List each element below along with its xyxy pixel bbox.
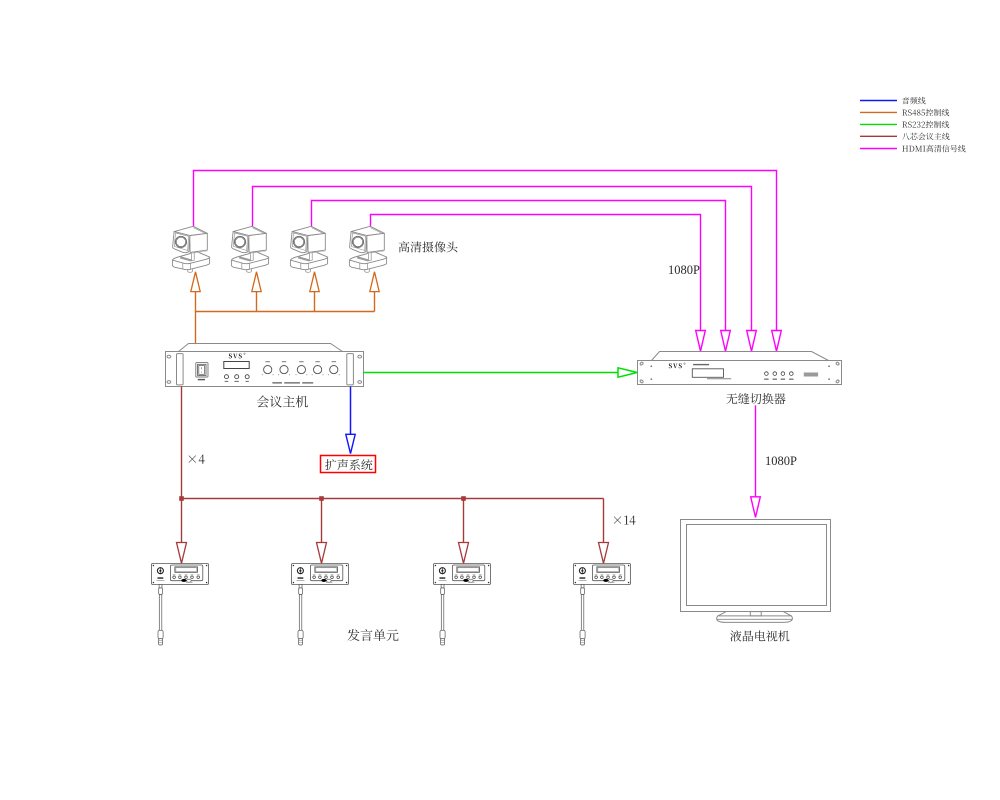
PA system box 扩声系统 (321, 456, 376, 473)
LCD TV 液晶电视机 (681, 520, 831, 623)
microphone unit MIC4 发言单元 (574, 564, 631, 646)
seamless switcher unit 无缝切换器 (638, 352, 842, 385)
wire HDMI camera2 to switcher (253, 187, 752, 331)
wire HDMI camera3 to switcher (312, 201, 726, 331)
microphone unit MIC1 发言单元 (152, 564, 209, 646)
junction conference bus (461, 496, 466, 501)
wire RS485 branch camera2 (256, 292, 258, 312)
junction conference bus (179, 496, 184, 501)
junction conference bus (319, 496, 324, 501)
svg-text:1080P: 1080P (765, 454, 797, 468)
wire conference branch mic4 (603, 499, 605, 543)
wire RS485 branch camera3 (314, 292, 316, 312)
wire RS485 branch camera4 (374, 292, 376, 312)
wire HDMI camera4 to switcher (371, 215, 701, 331)
wire conference branch mic2 (321, 499, 323, 543)
wire conference main bus from host (181, 387, 183, 499)
wire audio host to PA (350, 387, 352, 435)
wire RS485 drop to host (195, 312, 197, 344)
wire RS485 branch camera1 (195, 292, 197, 312)
label 会议主机 (257, 396, 308, 408)
camera CAM4 高清摄像头 (349, 226, 386, 272)
microphone unit MIC3 发言单元 (434, 564, 491, 646)
label 液晶电视机 (730, 630, 789, 641)
legend line HDMI高清信号线 (860, 148, 897, 150)
wire HDMI camera1 to switcher (194, 171, 777, 331)
legend line audio 音频线 (860, 100, 897, 102)
legend line 八芯会议主线 (860, 135, 897, 137)
camera CAM2 高清摄像头 (231, 226, 268, 272)
svg-text:1080P: 1080P (668, 263, 700, 277)
legend line RS232控制线 (860, 123, 897, 125)
legend line RS485控制线 (860, 111, 897, 113)
label x14 (614, 516, 636, 525)
wire HDMI switcher to TV (755, 405, 757, 497)
label x4 (189, 455, 205, 464)
wire conference bus horizontal (182, 498, 604, 500)
label 无缝切换器 (726, 393, 785, 404)
conference host unit 会议主机 (166, 344, 364, 387)
camera CAM3 高清摄像头 (290, 226, 327, 272)
wire conference branch mic1 (181, 499, 183, 543)
microphone unit MIC2 发言单元 (292, 564, 349, 646)
wire RS485 bus horizontal (196, 311, 375, 313)
label 发言单元 (347, 629, 398, 641)
camera CAM1 高清摄像头 (172, 226, 209, 272)
label 高清摄像头 (399, 241, 458, 252)
wire RS232 host to switcher (364, 372, 619, 374)
wire conference branch mic3 (463, 499, 465, 543)
